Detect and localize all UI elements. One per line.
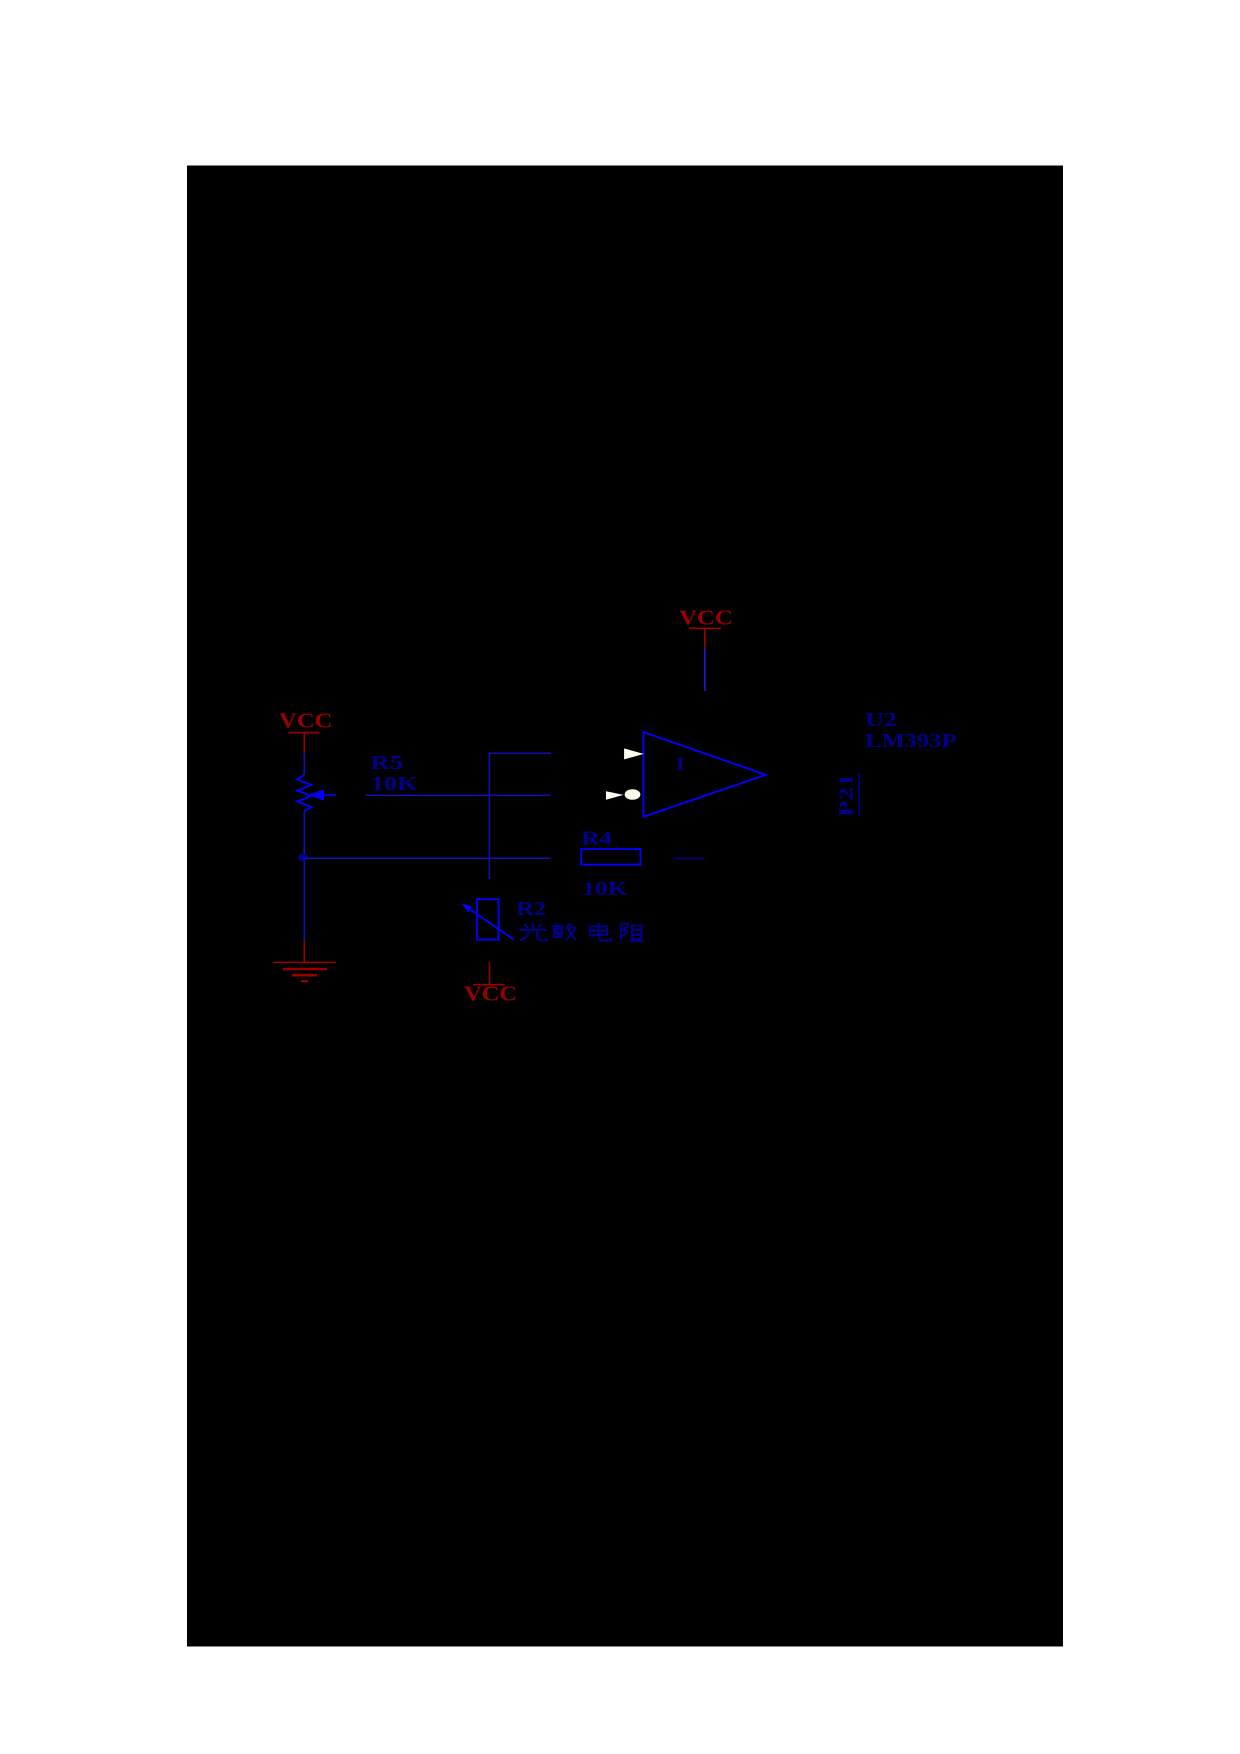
svg-text:10K: 10K bbox=[583, 878, 628, 900]
svg-text:LM393P: LM393P bbox=[865, 730, 956, 752]
svg-text:1: 1 bbox=[675, 753, 685, 775]
svg-text:10K: 10K bbox=[371, 773, 418, 795]
svg-text:VCC: VCC bbox=[464, 982, 517, 1006]
svg-text:R2: R2 bbox=[517, 898, 547, 920]
svg-text:R5: R5 bbox=[371, 752, 404, 774]
svg-text:VCC: VCC bbox=[679, 605, 733, 629]
svg-text:R4: R4 bbox=[581, 827, 612, 849]
svg-text:U2: U2 bbox=[865, 709, 897, 731]
svg-text:VCC: VCC bbox=[279, 708, 333, 732]
svg-text:P21: P21 bbox=[835, 774, 857, 817]
